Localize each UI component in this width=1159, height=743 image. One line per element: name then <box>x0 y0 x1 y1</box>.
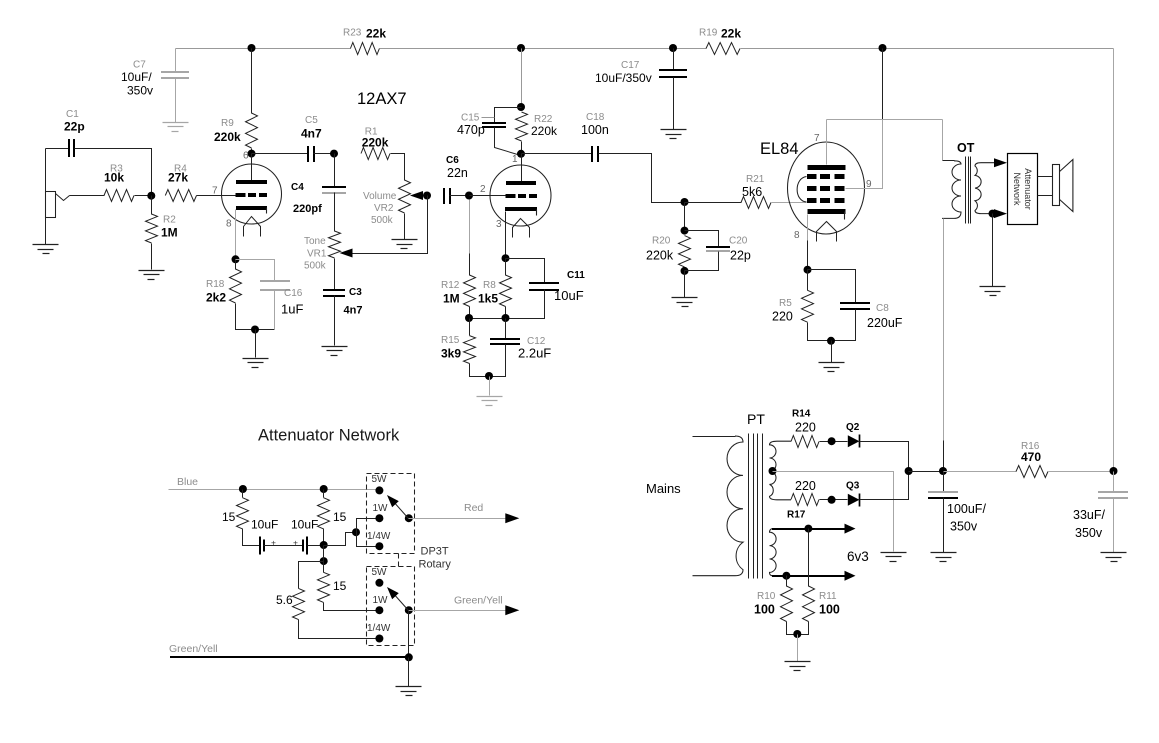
svg-text:5k6: 5k6 <box>742 185 762 199</box>
pin 1 label <box>512 154 518 165</box>
node stage2 ground junction <box>485 372 493 380</box>
wire node to R18 <box>235 260 237 270</box>
pin 3 label <box>496 219 502 230</box>
wire R10 bottom <box>787 622 798 635</box>
svg-text:5.6: 5.6 <box>276 593 293 607</box>
svg-text:220pf: 220pf <box>293 203 322 215</box>
wire att lower15 bottom <box>324 603 380 611</box>
value 220 (R5) <box>772 310 793 324</box>
label R9 <box>221 118 234 129</box>
wire C11 top <box>506 259 545 284</box>
ground attenuator <box>396 687 422 696</box>
label 12AX7 <box>357 90 407 108</box>
value 1k5 (R8) <box>478 292 498 306</box>
svg-text:R9: R9 <box>221 118 234 129</box>
pentode V2 cathode hook <box>844 212 846 220</box>
wire Red output (gray) <box>409 518 506 520</box>
wire node to R10 <box>786 576 788 587</box>
svg-text:350v: 350v <box>127 84 153 98</box>
svg-text:C11: C11 <box>567 270 585 281</box>
svg-text:220: 220 <box>795 479 816 493</box>
svg-text:15: 15 <box>333 579 347 593</box>
wire pivot2 to ground node <box>408 611 410 658</box>
svg-text:R11: R11 <box>819 591 837 602</box>
resistor R22 <box>516 112 528 141</box>
svg-text:4n7: 4n7 <box>344 305 363 317</box>
label C15 pointer <box>482 117 495 119</box>
svg-text:1k5: 1k5 <box>478 292 498 306</box>
wire node to R11 <box>808 529 810 587</box>
wire att R1 bottom <box>243 529 261 546</box>
triode V1a plate <box>236 180 267 184</box>
svg-text:500k: 500k <box>371 215 394 226</box>
arrow heater bottom <box>845 571 856 581</box>
switch arm arrow box1 <box>387 495 399 507</box>
svg-text:R5: R5 <box>779 298 792 309</box>
triode V1b cathode <box>505 207 537 211</box>
node GreenYell ground junction <box>405 653 413 661</box>
VR1 wiper arrow <box>340 249 353 258</box>
transformer PT HT secondary <box>770 441 792 500</box>
wire C15 top <box>495 108 522 124</box>
svg-text:8: 8 <box>226 219 232 230</box>
value 10uF (C11) <box>554 288 584 303</box>
svg-text:100uF/: 100uF/ <box>947 502 986 516</box>
node rail/R22 junction <box>517 44 525 52</box>
svg-text:Mains: Mains <box>646 481 681 496</box>
wire R20 to ground <box>684 271 686 298</box>
resistor R1 <box>361 148 390 160</box>
value 4n7 (C3) <box>344 305 363 317</box>
svg-text:2.2uF: 2.2uF <box>518 346 551 361</box>
transformer OT secondary <box>975 163 997 214</box>
value 1M (R12) <box>443 292 460 306</box>
node 33uF junction <box>1110 467 1118 475</box>
wire to stage2 ground <box>489 377 491 396</box>
capacitor C3 <box>323 290 345 296</box>
resistor att 15 lower <box>318 572 330 602</box>
wire C5 to node <box>314 153 335 155</box>
wire R16 to 33uF (gray) <box>1049 471 1114 473</box>
svg-text:27k: 27k <box>168 171 188 185</box>
label R15 <box>441 335 460 346</box>
resistor R5 <box>802 290 814 322</box>
node R12/R15 junction <box>465 314 473 322</box>
resistor R2 <box>146 214 158 243</box>
svg-text:Tone: Tone <box>304 236 326 247</box>
wire to EL84 ground <box>831 341 833 363</box>
value 33uF/ label <box>1073 508 1105 522</box>
label DP3T <box>421 546 449 558</box>
svg-text:R12: R12 <box>441 280 460 291</box>
svg-text:350v: 350v <box>950 520 978 534</box>
label R23 <box>343 28 362 39</box>
wire C8 bottom <box>832 310 856 341</box>
value 220uF (C8) <box>867 316 903 330</box>
svg-text:5W: 5W <box>372 474 388 485</box>
potentiometer VR2 <box>399 180 411 213</box>
svg-text:350v: 350v <box>1075 526 1103 540</box>
label 15 (lower) <box>333 579 347 593</box>
svg-text:220uF: 220uF <box>867 316 903 330</box>
value 100uF/ label <box>947 502 986 516</box>
value 470p (C15) <box>457 123 485 137</box>
node triode1 plate <box>248 150 256 158</box>
svg-text:R23: R23 <box>343 28 362 39</box>
pentode V2 heater <box>817 222 837 242</box>
resistor R3 <box>104 190 134 202</box>
resistor att 15 left <box>237 498 249 529</box>
triode V1a grid <box>236 193 268 197</box>
label R20 <box>652 236 671 247</box>
resistor R20 <box>679 236 691 267</box>
label C18 <box>586 112 605 123</box>
label R21 <box>746 174 765 185</box>
wire R3 to node <box>135 195 152 197</box>
value 220pf (C4) <box>293 203 322 215</box>
label C16 <box>284 288 303 299</box>
pentode V2 grid3 row <box>807 174 845 179</box>
label C5 <box>305 115 318 126</box>
capacitor C7 <box>161 72 189 78</box>
value 100 (R11) <box>819 603 840 617</box>
value 22k (R19) <box>721 27 741 41</box>
plus mark second cap <box>293 538 298 548</box>
value 1M (R2) <box>161 226 178 240</box>
value 470 (R16) <box>1021 450 1041 464</box>
svg-text:470p: 470p <box>457 123 485 137</box>
wire jack to R3 <box>70 195 105 197</box>
ground center tap <box>881 553 907 562</box>
svg-text:1/4W: 1/4W <box>367 623 391 634</box>
value 350v label (33uF) <box>1075 526 1103 540</box>
triode V1b plate lead <box>521 154 523 182</box>
capacitor C15 <box>482 123 506 127</box>
label EL84 <box>760 140 799 158</box>
value 2.2uF (C12) <box>518 346 551 361</box>
attenuator network box <box>1008 154 1038 225</box>
node R20/C20 top <box>681 227 689 235</box>
speaker horn <box>1060 160 1073 212</box>
svg-text:OT: OT <box>957 141 975 155</box>
transformer PT core <box>749 434 763 579</box>
label PT <box>747 411 765 427</box>
capacitor C4 <box>322 187 346 193</box>
svg-text:C4: C4 <box>291 182 304 193</box>
svg-text:R21: R21 <box>746 174 765 185</box>
wire jack top <box>45 149 47 192</box>
capacitor C11 <box>529 283 559 290</box>
svg-text:+: + <box>293 538 298 548</box>
svg-text:100n: 100n <box>581 123 609 137</box>
wire to att R1 <box>242 490 244 498</box>
svg-text:R14: R14 <box>792 409 811 420</box>
wire node to R21 <box>685 202 742 204</box>
svg-text:7: 7 <box>212 186 218 197</box>
wire PT primary top lead <box>693 436 736 438</box>
svg-text:470: 470 <box>1021 450 1041 464</box>
label R19 <box>699 28 718 39</box>
svg-text:1/4W: 1/4W <box>367 531 391 542</box>
svg-text:C6: C6 <box>446 155 459 166</box>
potentiometer VR1 <box>329 231 341 258</box>
transformer PT primary <box>693 436 744 576</box>
svg-text:2: 2 <box>480 184 486 195</box>
pentode V2 cathode lead (gray) <box>807 215 809 241</box>
label C8 <box>876 303 889 314</box>
capacitor C1 <box>69 139 74 157</box>
svg-text:R10: R10 <box>757 591 776 602</box>
label C6 <box>446 155 459 166</box>
label 1W (box2) <box>373 595 389 606</box>
wire R15 bottom <box>470 364 490 377</box>
wire C6 node down (gray) <box>469 200 471 254</box>
node Blue/R15a <box>239 485 247 493</box>
pentode V2 plate <box>808 165 846 170</box>
svg-text:12AX7: 12AX7 <box>357 90 407 108</box>
svg-text:220k: 220k <box>362 135 389 149</box>
value 22p (C20) <box>730 249 751 263</box>
label 1/4W (box2) <box>367 623 391 634</box>
svg-text:Q2: Q2 <box>846 422 860 433</box>
node Blue/R15b <box>320 485 328 493</box>
resistor R12 <box>464 275 476 307</box>
wire OT secondary bottom <box>993 213 998 215</box>
svg-text:C15: C15 <box>461 113 480 124</box>
label R1 <box>365 127 378 138</box>
svg-text:22k: 22k <box>366 27 386 41</box>
wire R12 bottom <box>469 307 471 319</box>
wire B+ rail right corner drop <box>1113 49 1115 472</box>
ground jack <box>33 245 59 254</box>
resistor att 15 right <box>318 498 330 529</box>
wire GreenYell bottom line <box>170 656 409 658</box>
svg-text:DP3T: DP3T <box>421 546 449 558</box>
label Tone <box>304 236 326 247</box>
pin 7 label <box>212 186 218 197</box>
svg-text:10uF: 10uF <box>291 518 318 532</box>
wire C18 right <box>599 154 685 203</box>
value 2k2 (R18) <box>206 291 226 305</box>
arrow OT secondary bottom <box>994 209 1007 218</box>
pin 9 wire (gray) <box>846 120 883 189</box>
label R18 <box>206 279 225 290</box>
pentode V2 envelope <box>788 142 865 234</box>
wire C17 top <box>673 49 675 70</box>
resistor R11 <box>803 586 815 622</box>
wire jack bottom <box>45 218 47 245</box>
pentode V2 grid1 arc <box>797 177 806 203</box>
wire 33uF top (gray) <box>1113 472 1115 492</box>
node att cap junction <box>320 541 328 549</box>
label 15 (right) <box>333 510 347 524</box>
node 100uF junction <box>939 467 947 475</box>
wire to C12 <box>505 319 507 339</box>
value 22n (C6) <box>447 166 468 180</box>
wire att 5.6 bottom <box>299 620 380 639</box>
wire rail to R22 <box>521 49 523 108</box>
value 22p (C1) <box>64 120 85 134</box>
label Mains <box>646 481 681 496</box>
ground 100uF <box>931 553 957 562</box>
node att lower junction <box>320 557 328 565</box>
wire C11 bottom <box>506 290 545 319</box>
wire R5 bottom <box>808 323 832 341</box>
label R5 <box>779 298 792 309</box>
svg-text:C7: C7 <box>133 60 146 71</box>
contact 5W box1 <box>375 486 383 494</box>
value 1uF (C16) <box>281 302 303 317</box>
svg-text:1M: 1M <box>161 226 178 240</box>
node R20 top junction <box>681 198 689 206</box>
wire att node down <box>323 546 325 573</box>
wire R21 to grid (gray) <box>772 202 807 204</box>
ground R20 <box>672 298 698 307</box>
node rail/EL84-screen junction <box>879 44 887 52</box>
rotary coupling dashed link <box>398 554 400 567</box>
label R4 <box>174 164 187 175</box>
triode V1a heater <box>244 217 261 237</box>
svg-text:220k: 220k <box>531 124 558 138</box>
svg-text:6: 6 <box>243 151 249 162</box>
wire to R12 <box>469 254 471 276</box>
value 220k (R22) <box>531 124 558 138</box>
ground VR2 <box>392 240 418 249</box>
attenuator box text <box>1012 168 1033 210</box>
svg-text:R2: R2 <box>163 215 176 226</box>
diode Q3 <box>848 494 860 507</box>
wire loop to switch <box>324 533 357 546</box>
capacitor C8 <box>840 303 870 309</box>
wire plate2 to C18 <box>522 153 592 155</box>
wire C3 bottom <box>334 296 336 346</box>
label C20 <box>729 236 748 247</box>
triode V1a envelope <box>222 164 282 224</box>
capacitor C 100uF <box>928 492 958 498</box>
svg-text:EL84: EL84 <box>760 140 799 158</box>
value 4n7 (C5) <box>301 127 322 141</box>
wire VR1 to C3 <box>334 259 336 291</box>
label VR2 <box>374 203 394 214</box>
node R22 top <box>517 103 525 111</box>
label 1W (box1) <box>373 503 389 514</box>
label 15 (left) <box>222 510 236 524</box>
wire att R2 bottom <box>323 529 325 546</box>
wire to Q3 <box>820 499 848 501</box>
wire screen to rail <box>882 49 884 120</box>
node volume wiper junction <box>423 192 431 200</box>
wire C16 bottom (gray) <box>274 290 276 330</box>
label Blue <box>177 476 198 488</box>
arrow GreenYell output <box>505 605 519 615</box>
node cathode ground junction <box>251 326 259 334</box>
resistor R9 <box>246 113 258 148</box>
VR2 wiper arrow <box>410 191 423 200</box>
svg-text:Red: Red <box>464 502 483 514</box>
wire R8 bottom <box>505 307 507 319</box>
label VR1 <box>307 249 327 260</box>
node heater top junction <box>804 525 812 533</box>
wire plate net top (gray) <box>827 119 943 121</box>
wire C6 to node <box>450 195 470 197</box>
wire R18 bottom <box>236 304 275 330</box>
svg-text:Q3: Q3 <box>846 481 860 492</box>
node triode2 plate <box>517 150 525 158</box>
switch pivot box1 <box>405 514 413 522</box>
wire R11 bottom <box>798 622 809 635</box>
svg-text:PT: PT <box>747 411 765 427</box>
transformer PT heater winding <box>770 529 777 576</box>
resistor R21 <box>741 197 771 209</box>
resistor R14 <box>791 436 819 448</box>
pin 6 label <box>243 151 249 162</box>
svg-text:VR2: VR2 <box>374 203 394 214</box>
value 10k (R3) <box>104 171 124 185</box>
wire C7 top <box>175 49 177 72</box>
svg-text:C5: C5 <box>305 115 318 126</box>
triode V1b plate <box>506 181 536 185</box>
svg-text:2k2: 2k2 <box>206 291 226 305</box>
pin 9 label <box>866 179 872 190</box>
wire heater bottom lead <box>772 575 845 577</box>
wire Q2 out <box>860 442 909 472</box>
node R20/C20 bottom <box>681 267 689 275</box>
switch arm box1 <box>393 501 409 519</box>
label R10 <box>757 591 776 602</box>
wire C6 to grid pin2 <box>470 195 506 197</box>
value 220k (R1) <box>362 135 389 149</box>
value 500k (VR1) <box>304 261 327 272</box>
wire C4 to tone <box>334 193 336 232</box>
wire C12 bottom <box>490 345 506 377</box>
wire att ground <box>408 658 410 687</box>
wire B+ top rail right <box>741 48 1114 50</box>
speaker driver <box>1053 165 1060 206</box>
wire plate to C5 <box>252 153 309 155</box>
svg-text:33uF/: 33uF/ <box>1073 508 1105 522</box>
svg-text:10uF: 10uF <box>251 518 278 532</box>
contact 5W box2 <box>375 579 383 587</box>
node C6/R12 junction <box>465 192 473 200</box>
svg-text:3k9: 3k9 <box>441 347 461 361</box>
wire C17 bottom <box>673 78 675 130</box>
svg-text:220k: 220k <box>646 249 674 263</box>
node C5/R1/C4 junction <box>330 150 338 158</box>
svg-text:1W: 1W <box>373 503 389 514</box>
switch box 2 (DP3T b) <box>367 567 415 646</box>
label C1 <box>66 109 79 120</box>
label 1/4W (box1) <box>367 531 391 542</box>
wire C1 right <box>75 149 152 196</box>
svg-text:10k: 10k <box>104 171 124 185</box>
label R12 <box>441 280 460 291</box>
value 500k (VR2) <box>371 215 394 226</box>
wire node to R2 <box>151 196 153 215</box>
wire VR2 wiper to node <box>424 195 428 197</box>
label C17 <box>621 60 640 71</box>
node R8/C12 junction <box>502 314 510 322</box>
wire 100uF top <box>943 472 945 492</box>
ground OT secondary <box>980 287 1006 296</box>
svg-text:500k: 500k <box>304 261 327 272</box>
capacitor C12 <box>490 339 520 344</box>
wire C15 bottom <box>495 128 518 155</box>
input jack J1 <box>46 192 56 218</box>
triode V1b cathode hook <box>536 210 538 216</box>
label GreenYell bottom <box>169 643 218 655</box>
wire R9 to plate node <box>251 149 253 154</box>
capacitor C18 <box>592 146 598 162</box>
